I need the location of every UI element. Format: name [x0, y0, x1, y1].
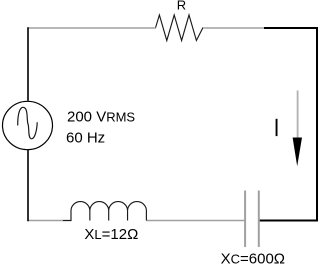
capacitor left plate — [244, 191, 246, 248]
wire bottom-middle gray horizontal — [146, 220, 245, 222]
wire bottom-right black horizontal — [259, 220, 318, 222]
resistor R — [156, 15, 203, 41]
ac source sine wave — [18, 107, 38, 138]
wire left vertical black top segment — [27, 27, 29, 101]
svg-text:200 VRMS: 200 VRMS — [67, 108, 135, 125]
wire bottom-left gray horizontal — [27, 220, 63, 222]
current arrow head — [293, 138, 302, 167]
capacitor right plate — [258, 191, 260, 248]
svg-text:R: R — [177, 0, 186, 13]
label I — [276, 119, 278, 136]
inductor L — [63, 202, 147, 221]
wire top-left gray horizontal — [27, 27, 156, 29]
ac source V1 circle — [3, 101, 53, 149]
current arrow shaft — [297, 91, 299, 139]
wire top-right black horizontal — [264, 27, 318, 29]
wire top-middle gray horizontal — [203, 27, 265, 29]
svg-text:XL=12Ω: XL=12Ω — [84, 226, 138, 243]
wire right vertical black — [316, 27, 318, 222]
svg-text:XC=600Ω: XC=600Ω — [221, 251, 285, 268]
svg-text:60 Hz: 60 Hz — [66, 129, 105, 146]
wire left vertical black bottom segment — [27, 150, 29, 222]
